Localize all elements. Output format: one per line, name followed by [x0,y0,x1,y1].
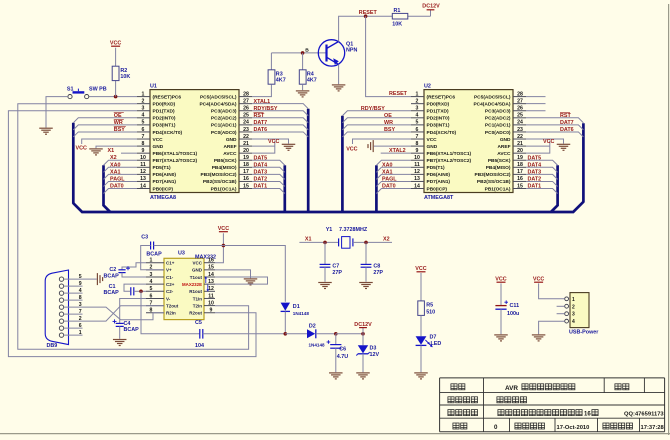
wire DB9 pin 8 [64,299,83,301]
node X2 [110,155,117,161]
node BSY [384,127,395,133]
svg-text:PC1(ADC1): PC1(ADC1) [211,123,237,129]
svg-text:17: 17 [517,169,523,175]
node DAT6 [560,127,574,133]
svg-text:RDY/BSY: RDY/BSY [361,106,385,112]
svg-text:C1: C1 [109,284,116,290]
wire USB pin4 to ground [539,321,565,334]
svg-text:22: 22 [243,134,249,140]
svg-text:PD3(INT1): PD3(INT1) [153,123,176,129]
svg-text:X2: X2 [383,237,390,243]
svg-text:28: 28 [517,91,523,97]
svg-text:6: 6 [150,293,153,299]
svg-text:V+: V+ [166,268,172,273]
svg-text:16: 16 [584,411,591,417]
svg-text:XA1: XA1 [382,169,393,175]
svg-text:C8: C8 [373,263,380,269]
svg-text:10K: 10K [392,22,402,28]
svg-text:U1: U1 [150,84,157,90]
svg-text:GND: GND [427,144,438,150]
svg-text:4: 4 [416,113,419,119]
node XA0 [382,162,393,168]
svg-text:8: 8 [416,141,419,147]
resistor R3 [268,70,275,84]
wire U2 pin15 DAT1 to bus [526,189,558,194]
svg-text:LED: LED [431,341,442,347]
capacitor C7 27P [320,242,343,281]
svg-text:DAT2: DAT2 [254,177,268,183]
svg-text:1: 1 [150,258,153,264]
wire U1 pin8 GND [96,146,137,148]
junction pin1/R2 [114,95,118,99]
svg-text:2: 2 [572,304,575,310]
svg-text:4: 4 [150,279,153,285]
ground U2 pin22 [557,144,571,150]
svg-text:4: 4 [572,319,575,325]
node WR [114,119,124,126]
svg-text:PC0(ADC0): PC0(ADC0) [485,130,511,136]
svg-text:2: 2 [79,316,82,322]
svg-text:6: 6 [79,323,82,329]
svg-text:10K: 10K [120,74,130,80]
svg-text:11: 11 [140,162,146,168]
svg-text:25: 25 [517,113,523,119]
svg-text:RESET: RESET [389,91,408,97]
wire U1 pin11 XA0 to bus [104,167,138,172]
wire U2 pin25 RST to bus [526,118,583,123]
svg-text:R2: R2 [120,68,127,74]
svg-text:DAT4: DAT4 [528,163,542,169]
wire U2 pin10 to bus [376,160,411,165]
svg-text:BCAP: BCAP [124,327,140,333]
svg-text:VCC: VCC [268,139,279,145]
svg-text:15: 15 [517,183,523,189]
svg-text:QQ:476591173: QQ:476591173 [624,412,664,418]
svg-text:B: B [305,48,309,54]
svg-text:VCC: VCC [76,146,87,152]
wire U1 pin2 RXD loop [18,104,249,350]
IC U3 MAX232 [146,251,216,320]
svg-text:R3: R3 [276,71,283,77]
node DAT0 [382,184,396,190]
svg-text:12V: 12V [370,352,380,358]
svg-text:6: 6 [416,127,419,133]
svg-text:VCC: VCC [543,139,554,145]
svg-text:21: 21 [243,141,249,147]
svg-text:C1+: C1+ [166,261,175,266]
svg-text:DAT3: DAT3 [528,170,542,176]
svg-text:20: 20 [243,148,249,154]
svg-text:C6: C6 [339,346,346,352]
power VCC above R5 [415,266,426,272]
svg-text:SW PB: SW PB [89,86,107,92]
svg-text:RDY/BSY: RDY/BSY [254,106,278,112]
svg-text:T2in: T2in [193,303,203,308]
svg-text:510: 510 [426,309,435,315]
node RESET [389,91,408,97]
svg-text:GND: GND [192,268,203,273]
svg-text:PB1(OC1A): PB1(OC1A) [485,186,511,192]
wire U1 pin26 RDY/BSY to bus [252,111,308,116]
wire U1 pin13 PAGL to bus [104,181,138,186]
wire U2 pin8 GND [374,145,411,147]
node DAT0 [110,184,124,190]
svg-text:BCAP: BCAP [146,251,162,257]
svg-text:R4: R4 [307,71,314,77]
svg-text:9: 9 [210,308,213,314]
wire U1 pin3 TXD loop [8,111,256,357]
svg-text:16: 16 [208,258,214,264]
svg-text:7.3728MHZ: 7.3728MHZ [339,227,368,233]
wire U2 pin9 XTAL2 [381,152,411,154]
svg-text:NPN: NPN [346,48,357,54]
svg-text:VCC: VCC [192,261,202,266]
node DAT3 [254,170,268,176]
wire DB9 pin 5 [64,278,83,280]
node XA1 [110,169,121,175]
wire U1 pin22 GND [252,139,289,144]
capacitor C2 BCAP [104,263,147,280]
svg-text:PC2(ADC2): PC2(ADC2) [211,116,237,122]
wire VCC to USB pin1 [539,283,565,298]
wire U1 pin21 AREF [252,145,275,147]
connector USB-Power [565,293,600,336]
svg-text:PC3(ADC3): PC3(ADC3) [485,109,511,115]
wire U1 pin23 DAT6 to bus [252,132,308,137]
ground Q1 emitter [332,85,346,91]
wire bus U1 right inner [283,165,286,212]
svg-text:DB9: DB9 [47,343,58,349]
wire U1 pin19 DAT5 to bus [252,160,285,165]
svg-text:26: 26 [517,106,523,112]
svg-text:PB7(XTAL2/TOSC2): PB7(XTAL2/TOSC2) [427,158,472,164]
svg-text:17-Oct-2010: 17-Oct-2010 [557,425,590,431]
svg-text:PD2(INT0): PD2(INT0) [427,116,450,122]
svg-text:R5: R5 [426,303,433,309]
junction DC12V node [361,332,365,336]
svg-text:1: 1 [572,297,575,303]
wire bus U1 left inner [104,165,111,212]
svg-text:PC4(ADC4/SDA): PC4(ADC4/SDA) [473,101,510,107]
node RDY/BSY [254,106,278,112]
svg-text:5: 5 [142,120,145,126]
ground under S1 [39,128,53,134]
svg-text:PB2(SS/OC1B): PB2(SS/OC1B) [477,179,511,185]
junction C2-/C5 [139,290,143,294]
wire U2 pin24 DAT7 to bus [526,125,583,130]
power DC12V top [422,3,440,16]
capacitor C1 BCAP [104,284,147,296]
svg-text:3: 3 [416,106,419,112]
svg-text:27: 27 [243,98,249,104]
svg-text:T2out: T2out [166,303,179,308]
svg-text:PC4(ADC4/SDA): PC4(ADC4/SDA) [199,101,236,107]
svg-text:15: 15 [208,265,214,271]
svg-text:28: 28 [243,91,249,97]
svg-text:DAT0: DAT0 [382,184,396,190]
svg-text:C4: C4 [124,321,131,327]
svg-text:DAT7: DAT7 [254,120,268,126]
node VCC [346,146,357,152]
wire U1 pin1 to switch [89,96,137,98]
wire U2 pin17 DAT3 to bus [526,174,558,179]
node DAT7 [560,120,574,126]
wire U2 pin13 PAGL to bus [376,181,411,186]
wire U2 pin21 AREF [526,145,550,147]
ground under C7 [318,283,332,289]
svg-text:3: 3 [150,272,153,278]
svg-text:0: 0 [494,424,498,431]
node DAT3 [528,170,542,176]
wire U2 pin16 DAT2 to bus [526,181,558,186]
svg-text:24: 24 [243,120,249,126]
node DAT5 [528,155,542,161]
title block text [448,384,665,431]
wire USB pin3 stub [557,313,565,315]
power VCC above MAX232 [218,226,229,232]
svg-text:12: 12 [140,169,146,175]
wire U2 pin3 RDY/BSY to bus [342,111,411,116]
IC U1 ATMEGA8 [137,84,252,202]
svg-text:PB4(MISO): PB4(MISO) [486,165,511,171]
svg-text:13: 13 [208,279,214,285]
svg-text:RST: RST [560,113,571,119]
ground under C4 [113,340,127,346]
wire DB9 pin5 to ground [83,278,97,280]
wire U1 pin24 DAT7 to bus [252,125,308,130]
wire DB9 pin 9 [64,285,83,287]
svg-text:19: 19 [517,155,523,161]
svg-text:PB6(XTAL1/TOSC1): PB6(XTAL1/TOSC1) [153,151,198,157]
svg-text:4: 4 [142,113,145,119]
capacitor C6 4.7U [327,334,349,372]
svg-text:19: 19 [243,155,249,161]
wire DB9 pin 4 [64,292,83,294]
node X2 [383,237,390,243]
svg-text:23: 23 [243,127,249,133]
svg-text:DC12V: DC12V [354,322,372,328]
wire U1 pin28 to R3 [252,85,271,97]
svg-text:DAT6: DAT6 [560,127,574,133]
svg-text:27P: 27P [373,270,383,276]
svg-text:PB5(SCK): PB5(SCK) [488,158,511,164]
wire U2 pin22 GND [526,139,564,144]
svg-text:PB7(XTAL2/TOSC2): PB7(XTAL2/TOSC2) [153,158,198,164]
node WR [384,120,393,126]
svg-text:4.7U: 4.7U [337,354,348,360]
wire bus U2 right inner [551,165,558,212]
svg-text:R2out: R2out [189,311,202,316]
svg-text:C2: C2 [109,267,116,273]
node XA0 [110,162,121,168]
ground under D3 [356,373,370,379]
ground under C6 [329,373,343,379]
wire DB9 pin 6 [64,327,83,329]
svg-text:D1: D1 [293,304,300,310]
svg-text:GND: GND [500,137,511,143]
capacitor C11 100u [495,283,519,334]
svg-text:15: 15 [243,183,249,189]
resistor R4 [299,70,306,84]
wire U2 pin23 DAT6 to bus [526,132,583,137]
svg-text:VCC: VCC [427,137,438,143]
svg-text:OE: OE [114,113,122,119]
svg-text:6: 6 [142,127,145,133]
ground MAX232 pin15 [244,279,258,285]
capacitor C8 27P [361,242,384,281]
svg-text:XA0: XA0 [382,162,393,168]
wire U2 pin26 stub [526,110,546,112]
svg-text:ATMEGA8T: ATMEGA8T [424,195,454,201]
wire U1 pin25 RST to bus [252,118,308,123]
power VCC above USB [533,277,544,283]
ground U2 pin8 (rotated) [368,140,373,152]
svg-text:XA0: XA0 [110,162,121,168]
node PAGL [382,176,397,182]
svg-text:PD5(T1): PD5(T1) [153,165,172,171]
node OE [384,113,392,119]
wire bus U1 left outer [72,123,75,204]
wire MAX232 pin15 GND [215,270,251,278]
svg-text:7: 7 [79,309,82,315]
wire Q1 emitter to ground [338,64,340,84]
svg-text:PB1(OC1A): PB1(OC1A) [211,186,237,192]
resistor R1 on reset line [392,13,408,19]
svg-text:14: 14 [140,183,146,189]
svg-text:18: 18 [517,162,523,168]
node VCC [543,139,554,145]
svg-text:9: 9 [416,148,419,154]
svg-text:16: 16 [517,176,523,182]
svg-text:DAT3: DAT3 [254,170,268,176]
svg-text:PC1(ADC1): PC1(ADC1) [485,123,511,129]
svg-text:Q1: Q1 [346,41,353,47]
diode D2 1N4148 [285,323,336,347]
svg-text:PD2(INT0): PD2(INT0) [153,116,176,122]
svg-text:5: 5 [150,286,153,292]
ground U1 pin22 [282,144,296,150]
node X1 [305,237,312,243]
svg-text:BSY: BSY [114,127,125,133]
LED D7 [416,335,442,347]
svg-text:PC3(ADC3): PC3(ADC3) [211,109,237,115]
svg-text:(RESET)PC6: (RESET)PC6 [427,94,456,100]
svg-text:4K7: 4K7 [307,78,317,84]
svg-text:7: 7 [416,134,419,140]
svg-text:C11: C11 [510,303,520,309]
svg-text:PB5(SCK): PB5(SCK) [214,158,237,164]
node RST [254,112,265,119]
wire DB9 pin 2 [64,320,83,322]
svg-text:PD7(AIN1): PD7(AIN1) [427,179,451,185]
node OE [114,112,124,119]
svg-text:DAT5: DAT5 [528,155,542,161]
node VCC [268,139,279,145]
svg-text:PD7(AIN1): PD7(AIN1) [153,179,177,185]
power VCC above C11 [495,277,506,283]
svg-text:DAT4: DAT4 [254,163,268,169]
wire U1 pin6 BSY to bus [73,132,137,137]
svg-text:17: 17 [243,169,249,175]
svg-text:PB0(ICP): PB0(ICP) [427,186,448,192]
junction D1/D2/C5 [284,332,288,336]
wire U1 pin15 DAT1 to bus [252,189,285,194]
svg-text:2: 2 [416,98,419,104]
wire Q1 collector to RESET node [339,16,431,41]
svg-text:4K7: 4K7 [276,78,286,84]
svg-text:2: 2 [142,98,145,104]
wire U2 pin12 XA1 to bus [376,174,411,179]
wire C2- to C5 [141,291,200,334]
svg-text:AVCC: AVCC [223,151,237,157]
wire bus U2 right outer [582,123,585,202]
svg-text:3: 3 [142,106,145,112]
svg-text:10: 10 [140,155,146,161]
capacitor C5 104 [195,320,204,349]
power DC12V bottom [354,322,372,334]
ground DB9 pin5 (rotated) [97,273,102,285]
sheet border bottom edge [0,433,670,435]
svg-text:17:37:28: 17:37:28 [641,425,665,431]
svg-text:DAT6: DAT6 [254,127,268,133]
svg-text:V-: V- [166,296,171,301]
svg-text:12: 12 [208,286,214,292]
node DAT6 [254,127,268,133]
resistor R2 [112,66,119,80]
svg-text:PD5(T1): PD5(T1) [427,165,446,171]
diode D3 zener 12V [356,334,379,372]
svg-text:DAT5: DAT5 [254,155,268,161]
svg-text:25: 25 [243,113,249,119]
junction VCC/C3/D1 [222,244,226,248]
svg-text:1: 1 [416,91,419,97]
svg-text:13: 13 [140,176,146,182]
wire U2 pin7 VCC [353,139,412,144]
wire U1 pin20 AVCC to VCC [252,141,275,153]
sheet border right edge [668,4,670,435]
wire X2 net [353,241,392,243]
svg-text:20: 20 [517,148,523,154]
wire bus U2 left inner [375,165,378,212]
svg-text:PD3(INT1): PD3(INT1) [427,123,450,129]
svg-text:BCAP: BCAP [104,290,120,296]
node DAT1 [528,184,542,190]
svg-text:PD0(RXD): PD0(RXD) [427,101,450,107]
svg-text:X1: X1 [305,237,312,243]
wire VCC to D1 anode [223,246,285,302]
power VCC above R2 [110,41,121,47]
node DAT2 [254,177,268,183]
svg-text:PC2(ADC2): PC2(ADC2) [485,116,511,122]
wire U1 pin17 DAT3 to bus [252,174,285,179]
svg-text:21: 21 [517,141,523,147]
svg-text:DAT0: DAT0 [110,184,124,190]
wire U2 pin6 BSY to bus [342,132,411,137]
node DAT1 [254,184,268,190]
connector DB9 [45,270,68,349]
svg-text:PD0(RXD): PD0(RXD) [153,101,176,107]
svg-text:100u: 100u [507,311,519,317]
svg-text:PB0(ICP): PB0(ICP) [153,186,174,192]
svg-text:3: 3 [79,302,82,308]
svg-text:DC12V: DC12V [422,3,440,9]
svg-text:C3: C3 [141,235,148,241]
svg-text:PD6(AIN0): PD6(AIN0) [427,172,451,178]
svg-text:XTAL2: XTAL2 [389,148,406,154]
svg-text:11: 11 [414,162,420,168]
switch S1 SW-PB [67,86,107,98]
svg-text:R1: R1 [394,8,401,14]
